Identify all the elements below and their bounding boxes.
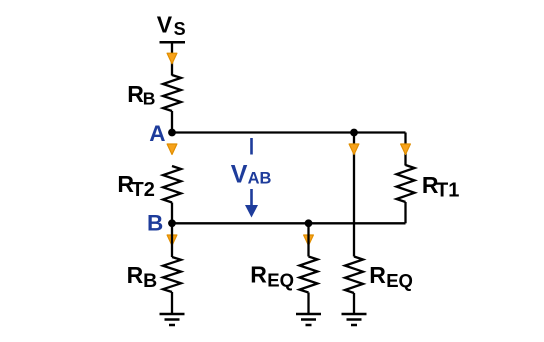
wire RT2 bottom to node B (171, 203, 173, 224)
junction dot on A wire (mid branch) (350, 129, 358, 137)
wire left REQ bottom to ground (307, 293, 309, 315)
svg-text:AB: AB (248, 169, 272, 187)
resistor RB (top) (163, 75, 181, 111)
wire B wire down to left REQ (307, 223, 309, 256)
wire RT1 bottom to B wire corner (404, 202, 406, 223)
current arrow on mid branch below A wire (349, 144, 359, 155)
current arrow from VS into RB (167, 53, 177, 64)
resistor REQ (left) (300, 257, 318, 293)
VAB reference tick (250, 138, 253, 155)
ground (below left REQ) (296, 313, 321, 316)
label RB (bottom) (127, 262, 158, 292)
svg-text:EQ: EQ (386, 270, 413, 291)
resistor RT2 (163, 166, 181, 203)
resistor REQ (right) (345, 257, 363, 294)
label RT1 (422, 172, 459, 202)
wire node A horizontal to right corner (172, 131, 406, 133)
svg-text:V: V (231, 160, 248, 188)
label REQ (left) (250, 262, 294, 291)
svg-text:B: B (143, 270, 157, 292)
svg-text:V: V (157, 12, 173, 38)
node B dot (168, 219, 176, 227)
VAB arrow (A to B direction) (250, 189, 253, 208)
svg-text:S: S (174, 19, 186, 39)
label REQ (right) (369, 262, 413, 291)
svg-text:R: R (369, 262, 386, 288)
ground (below right REQ) (342, 313, 367, 316)
svg-text:T1: T1 (436, 179, 459, 201)
svg-text:B: B (147, 211, 163, 236)
svg-text:R: R (127, 262, 144, 288)
current arrow from A into RT2 (167, 144, 177, 155)
node A dot (168, 129, 176, 137)
wire right corner down to RT1 (404, 133, 406, 166)
junction dot on B wire (left REQ branch) (305, 219, 313, 227)
svg-text:R: R (250, 262, 267, 288)
wire VS to resistor RB top (171, 42, 173, 75)
current arrow into RT1 (401, 144, 411, 155)
resistor RB (bottom) (163, 257, 181, 292)
svg-text:B: B (143, 88, 156, 108)
svg-text:T2: T2 (132, 179, 155, 201)
wire RB bottom to ground (171, 292, 173, 314)
resistor RT1 (397, 165, 415, 202)
svg-text:EQ: EQ (267, 270, 294, 291)
label RB (top) (127, 81, 155, 108)
ground (left, below RB) (160, 313, 185, 316)
label RT2 (117, 171, 154, 201)
wire node B horizontal to right corner (172, 222, 406, 224)
current arrow on left REQ branch below B wire (304, 235, 314, 246)
wire mid branch vertical from A wire down through B wire to right REQ (353, 133, 355, 257)
current arrow from B into RB bottom (167, 235, 177, 246)
wire RB bottom to node A (171, 111, 173, 133)
svg-text:R: R (127, 81, 144, 107)
voltage source VS terminal bar (160, 41, 186, 44)
label VAB (231, 160, 272, 188)
label VS (157, 12, 186, 40)
wire right REQ bottom to ground (353, 293, 355, 314)
wire B to resistor RB bottom (171, 223, 173, 257)
svg-text:A: A (149, 121, 165, 146)
